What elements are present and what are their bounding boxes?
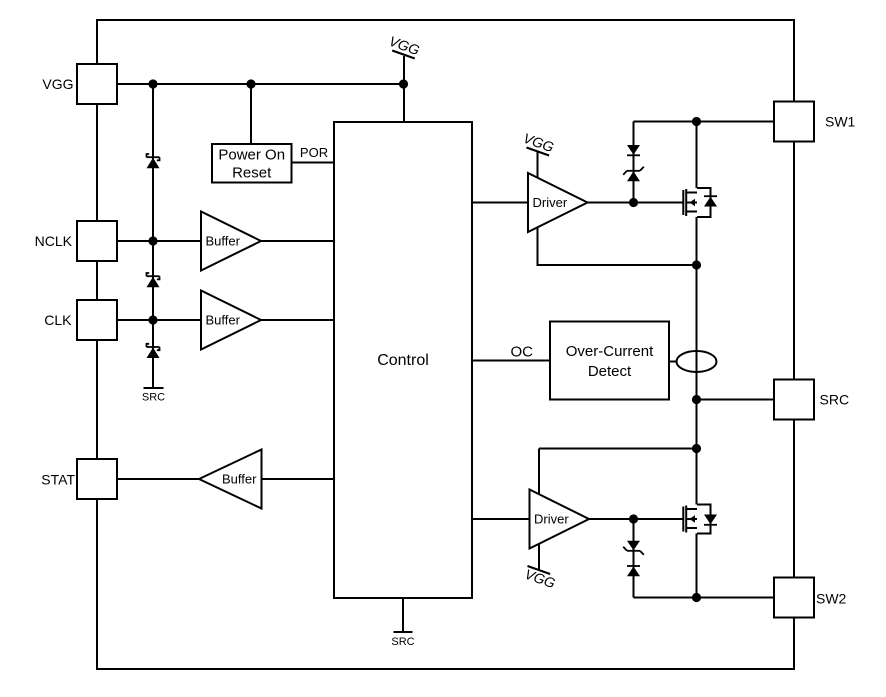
- svg-text:Power On: Power On: [218, 147, 285, 164]
- svg-text:OC: OC: [511, 344, 534, 361]
- svg-text:SW2: SW2: [816, 591, 847, 607]
- svg-text:Driver: Driver: [533, 195, 568, 210]
- svg-text:SRC: SRC: [142, 392, 165, 404]
- svg-text:Driver: Driver: [534, 512, 569, 527]
- svg-text:Buffer: Buffer: [222, 472, 257, 487]
- svg-text:SRC: SRC: [820, 392, 850, 408]
- svg-text:NCLK: NCLK: [35, 233, 73, 249]
- svg-text:Buffer: Buffer: [206, 234, 241, 249]
- svg-text:STAT: STAT: [41, 472, 75, 488]
- svg-text:VGG: VGG: [42, 76, 73, 92]
- svg-text:Detect: Detect: [588, 363, 632, 380]
- svg-text:Buffer: Buffer: [206, 313, 241, 328]
- svg-text:CLK: CLK: [44, 312, 72, 328]
- svg-text:POR: POR: [300, 145, 328, 160]
- svg-text:SRC: SRC: [391, 636, 414, 648]
- svg-text:Over-Current: Over-Current: [566, 343, 654, 360]
- svg-text:SW1: SW1: [825, 114, 856, 130]
- svg-text:Reset: Reset: [232, 165, 272, 182]
- svg-text:Control: Control: [377, 352, 429, 369]
